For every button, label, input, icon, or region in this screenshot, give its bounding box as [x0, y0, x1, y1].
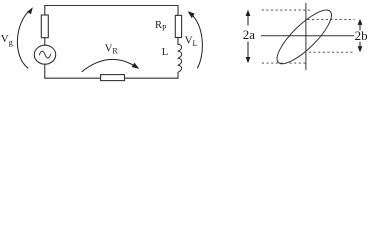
inductor L coil	[178, 44, 182, 72]
wire top	[45, 5, 178, 7]
dashed top (2a upper)	[262, 9, 313, 11]
2a arrow upper	[246, 10, 251, 63]
resistor Rg (generator internal)	[41, 15, 48, 38]
svg-text:2b: 2b	[355, 28, 368, 43]
svg-text:Vg: Vg	[1, 33, 13, 47]
VL arrowhead	[188, 11, 195, 18]
svg-text:VR: VR	[105, 43, 119, 55]
wire right upper	[177, 6, 179, 16]
2a arrow lower	[247, 42, 249, 60]
wire left upper	[44, 6, 46, 16]
dashed lower right (2b lower)	[309, 51, 355, 53]
svg-text:L: L	[162, 47, 168, 58]
svg-text:2a: 2a	[243, 27, 256, 42]
svg-text:VL: VL	[185, 35, 198, 49]
Vg arrow arc	[17, 10, 30, 69]
2b arrow lower	[359, 42, 361, 48]
wire right lower	[177, 73, 179, 79]
VR arrowhead	[132, 63, 140, 69]
VL arrow arc	[190, 13, 202, 68]
AC source Vg circle	[34, 45, 55, 64]
resistor R (horizontal, bottom wire)	[101, 75, 125, 81]
Vg arrowhead	[27, 7, 33, 14]
wire right middle	[177, 38, 179, 45]
wire left lower	[44, 64, 46, 78]
ellipse (tilted)	[270, 3, 338, 71]
y axis	[305, 3, 307, 70]
dashed upper right (2b upper)	[308, 18, 355, 20]
resistor RP	[175, 15, 181, 37]
svg-text:RP: RP	[155, 20, 167, 32]
x axis	[261, 35, 354, 37]
VR arrow arc	[82, 59, 138, 71]
2b arrow upper	[358, 19, 363, 53]
wire bottom	[45, 77, 178, 79]
wire left middle	[44, 38, 46, 46]
AC source sine tilde	[39, 51, 50, 58]
dashed bottom (2a lower)	[262, 62, 305, 64]
